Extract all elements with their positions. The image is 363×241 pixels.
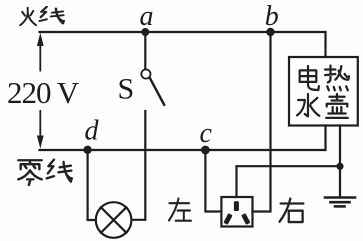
svg-text:c: c xyxy=(200,118,213,149)
svg-text:d: d xyxy=(85,116,100,147)
svg-text:b: b xyxy=(265,1,279,32)
svg-text:S: S xyxy=(118,73,135,106)
svg-text:a: a xyxy=(140,1,154,32)
svg-text:220 V: 220 V xyxy=(7,75,80,110)
